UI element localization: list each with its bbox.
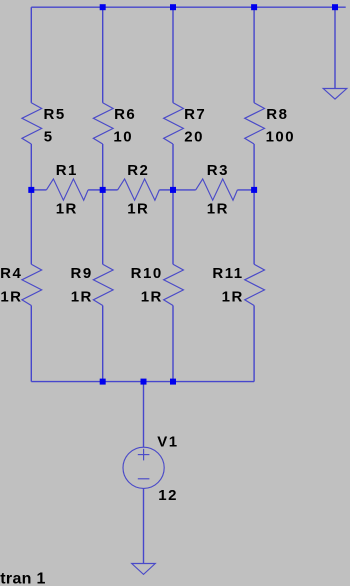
svg-text:1R: 1R <box>141 288 163 305</box>
node mid b1 <box>28 187 34 193</box>
node bottom V1 <box>141 379 147 385</box>
wire top rail <box>31 6 345 8</box>
node mid b4 <box>251 187 257 193</box>
resistor R11 <box>245 264 265 305</box>
svg-text:R6: R6 <box>114 106 136 123</box>
node top rail b4 <box>251 4 257 10</box>
wire branch3 upper <box>172 7 174 103</box>
resistor R9 <box>93 264 113 305</box>
node mid b2 <box>100 187 106 193</box>
resistor R3 <box>196 179 238 200</box>
svg-text:20: 20 <box>184 129 204 146</box>
wire branch2 upper <box>102 7 104 103</box>
svg-text:R9: R9 <box>71 265 93 282</box>
svg-text:1R: 1R <box>207 200 229 217</box>
svg-text:R2: R2 <box>127 162 149 179</box>
svg-text:1R: 1R <box>71 288 93 305</box>
svg-text:100: 100 <box>266 129 296 146</box>
node top rail b2 <box>100 4 106 10</box>
svg-text:1R: 1R <box>0 288 22 305</box>
resistor R1 <box>46 179 88 200</box>
wire branch1 mid <box>30 144 32 264</box>
svg-text:1R: 1R <box>127 200 149 217</box>
ground top right <box>323 89 347 100</box>
wire R1 left stub <box>31 189 46 191</box>
wire V1 bottom lead <box>143 488 145 563</box>
svg-text:12: 12 <box>158 487 178 504</box>
resistor R8 <box>245 103 265 144</box>
svg-text:R10: R10 <box>131 265 163 282</box>
wire R3 right stub <box>237 189 254 191</box>
wire bottom rail <box>31 381 254 383</box>
resistor R4 <box>22 264 42 305</box>
wire branch2 lower <box>102 306 104 382</box>
wire V1 top lead <box>143 382 145 448</box>
wire branch4 upper <box>253 7 255 103</box>
svg-text:tran 1: tran 1 <box>0 571 45 586</box>
wire branch3 lower <box>172 306 174 382</box>
ground bottom <box>132 564 156 575</box>
resistor R10 <box>164 264 184 305</box>
svg-text:1R: 1R <box>56 200 78 217</box>
svg-text:R1: R1 <box>56 162 78 179</box>
node mid b3 <box>170 187 176 193</box>
wire R1 right stub <box>88 189 103 191</box>
svg-text:5: 5 <box>44 129 54 146</box>
resistor R6 <box>93 103 113 144</box>
wire branch4 lower <box>253 306 255 382</box>
svg-text:V1: V1 <box>157 433 178 450</box>
node bottom b2 <box>100 379 106 385</box>
resistor R5 <box>22 103 42 144</box>
wire branch3 mid <box>172 144 174 264</box>
resistor R2 <box>118 179 160 200</box>
voltage source V1 <box>123 447 164 488</box>
wire branch1 upper <box>30 7 32 103</box>
svg-text:1R: 1R <box>222 288 244 305</box>
wire R3 left stub <box>173 189 196 191</box>
svg-text:10: 10 <box>113 129 133 146</box>
resistor R7 <box>164 103 184 144</box>
wire branch4 mid <box>253 144 255 264</box>
wire branch1 lower <box>30 306 32 382</box>
node bottom b3 <box>170 379 176 385</box>
wire right ground stub <box>334 7 336 88</box>
svg-text:R8: R8 <box>266 106 288 123</box>
svg-text:R5: R5 <box>44 106 66 123</box>
wire R2 left stub <box>103 189 118 191</box>
svg-text:R7: R7 <box>184 106 206 123</box>
wire R2 right stub <box>159 189 173 191</box>
wire branch2 mid <box>102 144 104 264</box>
node top rail ground <box>332 4 338 10</box>
svg-text:R4: R4 <box>0 265 22 282</box>
svg-text:R3: R3 <box>207 162 229 179</box>
svg-text:R11: R11 <box>212 265 243 282</box>
node top rail b3 <box>170 4 176 10</box>
